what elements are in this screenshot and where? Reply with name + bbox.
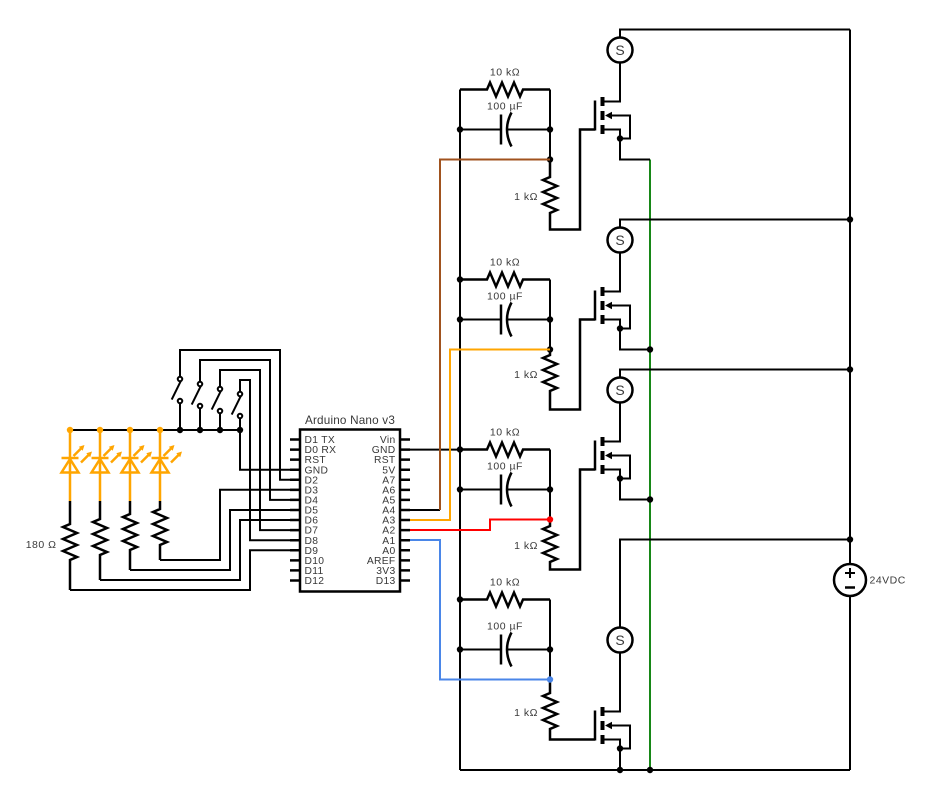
- wire source M3 to green net: [620, 479, 650, 500]
- svg-text:1 kΩ: 1 kΩ: [514, 707, 538, 719]
- wire GND pin to GND rail: [410, 449, 460, 451]
- wire LED 1 to pin: [70, 550, 300, 590]
- voltage source V1 24VDC: [834, 564, 866, 596]
- label 1 kOhm stage 1: [514, 191, 538, 203]
- junction source M4: [617, 745, 623, 751]
- wire source M3: [605, 470, 621, 479]
- junction source M2: [617, 325, 623, 331]
- label 100 uF stage 2: [487, 291, 523, 303]
- wire switch SW4 to bus: [239, 419, 241, 430]
- wire LED 2 to pin: [100, 520, 300, 580]
- resistor 180 ohm column 1: [63, 501, 77, 590]
- wire cap to gate node stage 4: [549, 650, 551, 680]
- svg-text:100 µF: 100 µF: [487, 101, 523, 113]
- pin labels U1 right: [367, 435, 396, 587]
- wire A4 pin black segment: [410, 509, 440, 511]
- junction cap right stage 3: [547, 486, 553, 492]
- wire cap to gate node stage 2: [549, 320, 551, 350]
- pin labels U1 left: [305, 435, 337, 587]
- svg-text:10 kΩ: 10 kΩ: [490, 427, 520, 439]
- label 10 kOhm stage 1: [490, 67, 520, 79]
- svg-text:100 µF: 100 µF: [487, 291, 523, 303]
- svg-text:S: S: [615, 42, 624, 58]
- wire GND left rail: [459, 90, 461, 771]
- junction bus SW1: [177, 427, 183, 433]
- wire 10k right to cap stage 4: [549, 600, 551, 650]
- wire body tie M1: [612, 116, 631, 139]
- resistor 180 ohm column 2: [93, 501, 107, 580]
- svg-text:10 kΩ: 10 kΩ: [490, 257, 520, 269]
- junction gate node stage 4: [547, 676, 553, 682]
- junction GND rail cap stage 1: [457, 126, 463, 132]
- junction cap right stage 1: [547, 126, 553, 132]
- switch SW4: [232, 392, 243, 419]
- resistor 180 ohm column 3: [123, 501, 137, 570]
- motor S3: [608, 378, 633, 403]
- wire switch SW2 to bus: [199, 409, 201, 430]
- wire switch SW1 to pin: [180, 350, 300, 480]
- transistor M4 NMOS: [595, 707, 612, 744]
- wire cap to gate node stage 3: [549, 490, 551, 520]
- wire A4 net brown: [440, 160, 550, 511]
- LED D4: [152, 430, 183, 501]
- wire 10k right to cap stage 2: [549, 280, 551, 320]
- resistor 1k stage 3: [543, 470, 595, 570]
- capacitor 100uF stage 2: [460, 303, 550, 337]
- wire source M2: [605, 320, 621, 329]
- junction cap right stage 2: [547, 316, 553, 322]
- svg-text:D12: D12: [305, 576, 325, 587]
- junction gate node stage 1: [547, 156, 553, 162]
- wire source M1 to green net: [620, 139, 650, 160]
- resistor 10k stage 4: [460, 593, 550, 607]
- LED D3: [122, 430, 153, 501]
- wire switch SW3 to pin: [220, 370, 300, 530]
- wire motor S2 to drain: [605, 253, 621, 292]
- wire ground bottom rail: [460, 769, 850, 771]
- switch SW3: [212, 387, 223, 414]
- junction bottom rail M4 source: [617, 767, 623, 773]
- label 10 kOhm stage 4: [490, 577, 520, 589]
- wire source M4 to bottom rail: [619, 749, 621, 771]
- svg-text:10 kΩ: 10 kΩ: [490, 577, 520, 589]
- svg-text:1 kΩ: 1 kΩ: [514, 540, 538, 552]
- svg-text:24VDC: 24VDC: [870, 575, 906, 587]
- wire +24V tap stage 2: [620, 220, 850, 228]
- junction bus LED D2: [97, 427, 103, 433]
- svg-text:100 µF: 100 µF: [487, 461, 523, 473]
- wire +24V top rail stage 1: [620, 30, 850, 38]
- junction GND rail cap stage 4: [457, 646, 463, 652]
- wire LED 3 to pin: [130, 510, 300, 570]
- wire A1 net blue: [410, 540, 550, 680]
- junction GND rail 10k top stage 2: [457, 276, 463, 282]
- junction GND rail 10k top stage 3: [457, 446, 463, 452]
- wire switch SW4 to pin: [240, 380, 300, 540]
- motor S1: [608, 38, 633, 63]
- resistor 1k stage 1: [543, 130, 595, 230]
- label 180 Ohm: [26, 539, 57, 551]
- label 24VDC: [870, 575, 906, 587]
- wire 10k right to cap stage 1: [549, 90, 551, 130]
- wire 10k right to cap stage 3: [549, 450, 551, 490]
- switch SW2: [192, 382, 203, 409]
- label 1 kOhm stage 2: [514, 369, 538, 381]
- pin stubs U1: [290, 440, 410, 581]
- LED D2: [92, 430, 123, 501]
- junction +24V rail stage 2: [847, 216, 853, 222]
- wire +24V tap stage 3: [620, 370, 850, 378]
- junction gate node stage 3: [547, 516, 553, 522]
- junction green net stage 2: [647, 346, 653, 352]
- junction cap right stage 4: [547, 646, 553, 652]
- wire switch SW1 to bus: [179, 404, 181, 430]
- junction bus LED D4: [157, 427, 163, 433]
- wire LED cathode bus: [70, 429, 240, 431]
- LED D1: [62, 430, 93, 501]
- wire switch SW2 to pin: [200, 360, 300, 500]
- junction GND rail cap stage 2: [457, 316, 463, 322]
- label 100 uF stage 4: [487, 621, 523, 633]
- resistor 180 ohm column 4: [153, 501, 167, 560]
- svg-text:1 kΩ: 1 kΩ: [514, 369, 538, 381]
- label Arduino Nano v3: [305, 414, 395, 427]
- label 100 uF stage 1: [487, 101, 523, 113]
- wire A3 net orange: [410, 350, 550, 521]
- svg-text:10 kΩ: 10 kΩ: [490, 67, 520, 79]
- junction +24V rail stage 4: [847, 536, 853, 542]
- wire body tie M3: [612, 456, 631, 479]
- motor S4: [608, 628, 633, 653]
- wire motor S1 to drain: [605, 63, 621, 102]
- junction green net stage 3: [647, 496, 653, 502]
- switch SW1: [172, 377, 183, 404]
- svg-text:Arduino Nano v3: Arduino Nano v3: [305, 414, 395, 427]
- junction gate node stage 2: [547, 346, 553, 352]
- resistor 1k stage 2: [543, 320, 595, 410]
- junction GND rail 10k top stage 4: [457, 596, 463, 602]
- transistor M1 NMOS: [595, 97, 612, 134]
- wire +24V right rail upper: [849, 30, 851, 565]
- wire +24V right rail lower: [849, 596, 851, 770]
- svg-text:100 µF: 100 µF: [487, 621, 523, 633]
- wire source M2 to green net: [620, 329, 650, 350]
- svg-text:S: S: [615, 632, 624, 648]
- svg-text:S: S: [615, 232, 624, 248]
- resistor 10k stage 2: [460, 273, 550, 287]
- junction bus SW2: [197, 427, 203, 433]
- junction bus LED D1: [67, 427, 73, 433]
- label 100 uF stage 3: [487, 461, 523, 473]
- junction source M3: [617, 475, 623, 481]
- junction source M1: [617, 135, 623, 141]
- capacitor 100uF stage 3: [460, 473, 550, 507]
- label 1 kOhm stage 4: [514, 707, 538, 719]
- label 1 kOhm stage 3: [514, 540, 538, 552]
- resistor 1k stage 4: [543, 680, 595, 740]
- junction bus SW4: [237, 427, 243, 433]
- wire A2 net red: [410, 520, 550, 531]
- resistor 10k stage 3: [460, 443, 550, 457]
- wire motor S4 to drain: [605, 653, 621, 712]
- wire +24V tap stage 4: [620, 540, 850, 628]
- wire bus to GND pin: [240, 430, 300, 470]
- transistor M3 NMOS: [595, 437, 612, 474]
- label 10 kOhm stage 3: [490, 427, 520, 439]
- svg-text:S: S: [615, 382, 624, 398]
- junction +24V rail stage 3: [847, 366, 853, 372]
- junction GND rail cap stage 3: [457, 486, 463, 492]
- svg-text:D13: D13: [376, 576, 396, 587]
- wire source M4: [605, 740, 621, 749]
- junction bottom rail green net: [647, 767, 653, 773]
- wire LED 4 to pin: [160, 490, 300, 560]
- motor S2: [608, 228, 633, 253]
- junction bus SW3: [217, 427, 223, 433]
- wire body tie M2: [612, 306, 631, 329]
- capacitor 100uF stage 4: [460, 633, 550, 667]
- transistor M2 NMOS: [595, 287, 612, 324]
- wire body tie M4: [612, 726, 631, 749]
- wire source M1: [605, 130, 621, 139]
- wire switch SW3 to bus: [219, 414, 221, 430]
- svg-text:180 Ω: 180 Ω: [26, 539, 57, 551]
- svg-text:1 kΩ: 1 kΩ: [514, 191, 538, 203]
- wire motor S3 to drain: [605, 403, 621, 442]
- capacitor 100uF stage 1: [460, 113, 550, 147]
- resistor 10k stage 1: [460, 83, 550, 97]
- wire source net green vertical: [649, 160, 651, 771]
- junction bus LED D3: [127, 427, 133, 433]
- label 10 kOhm stage 2: [490, 257, 520, 269]
- wire cap to gate node stage 1: [549, 130, 551, 160]
- op-amp U1 Arduino Nano v3 box: [300, 430, 400, 592]
